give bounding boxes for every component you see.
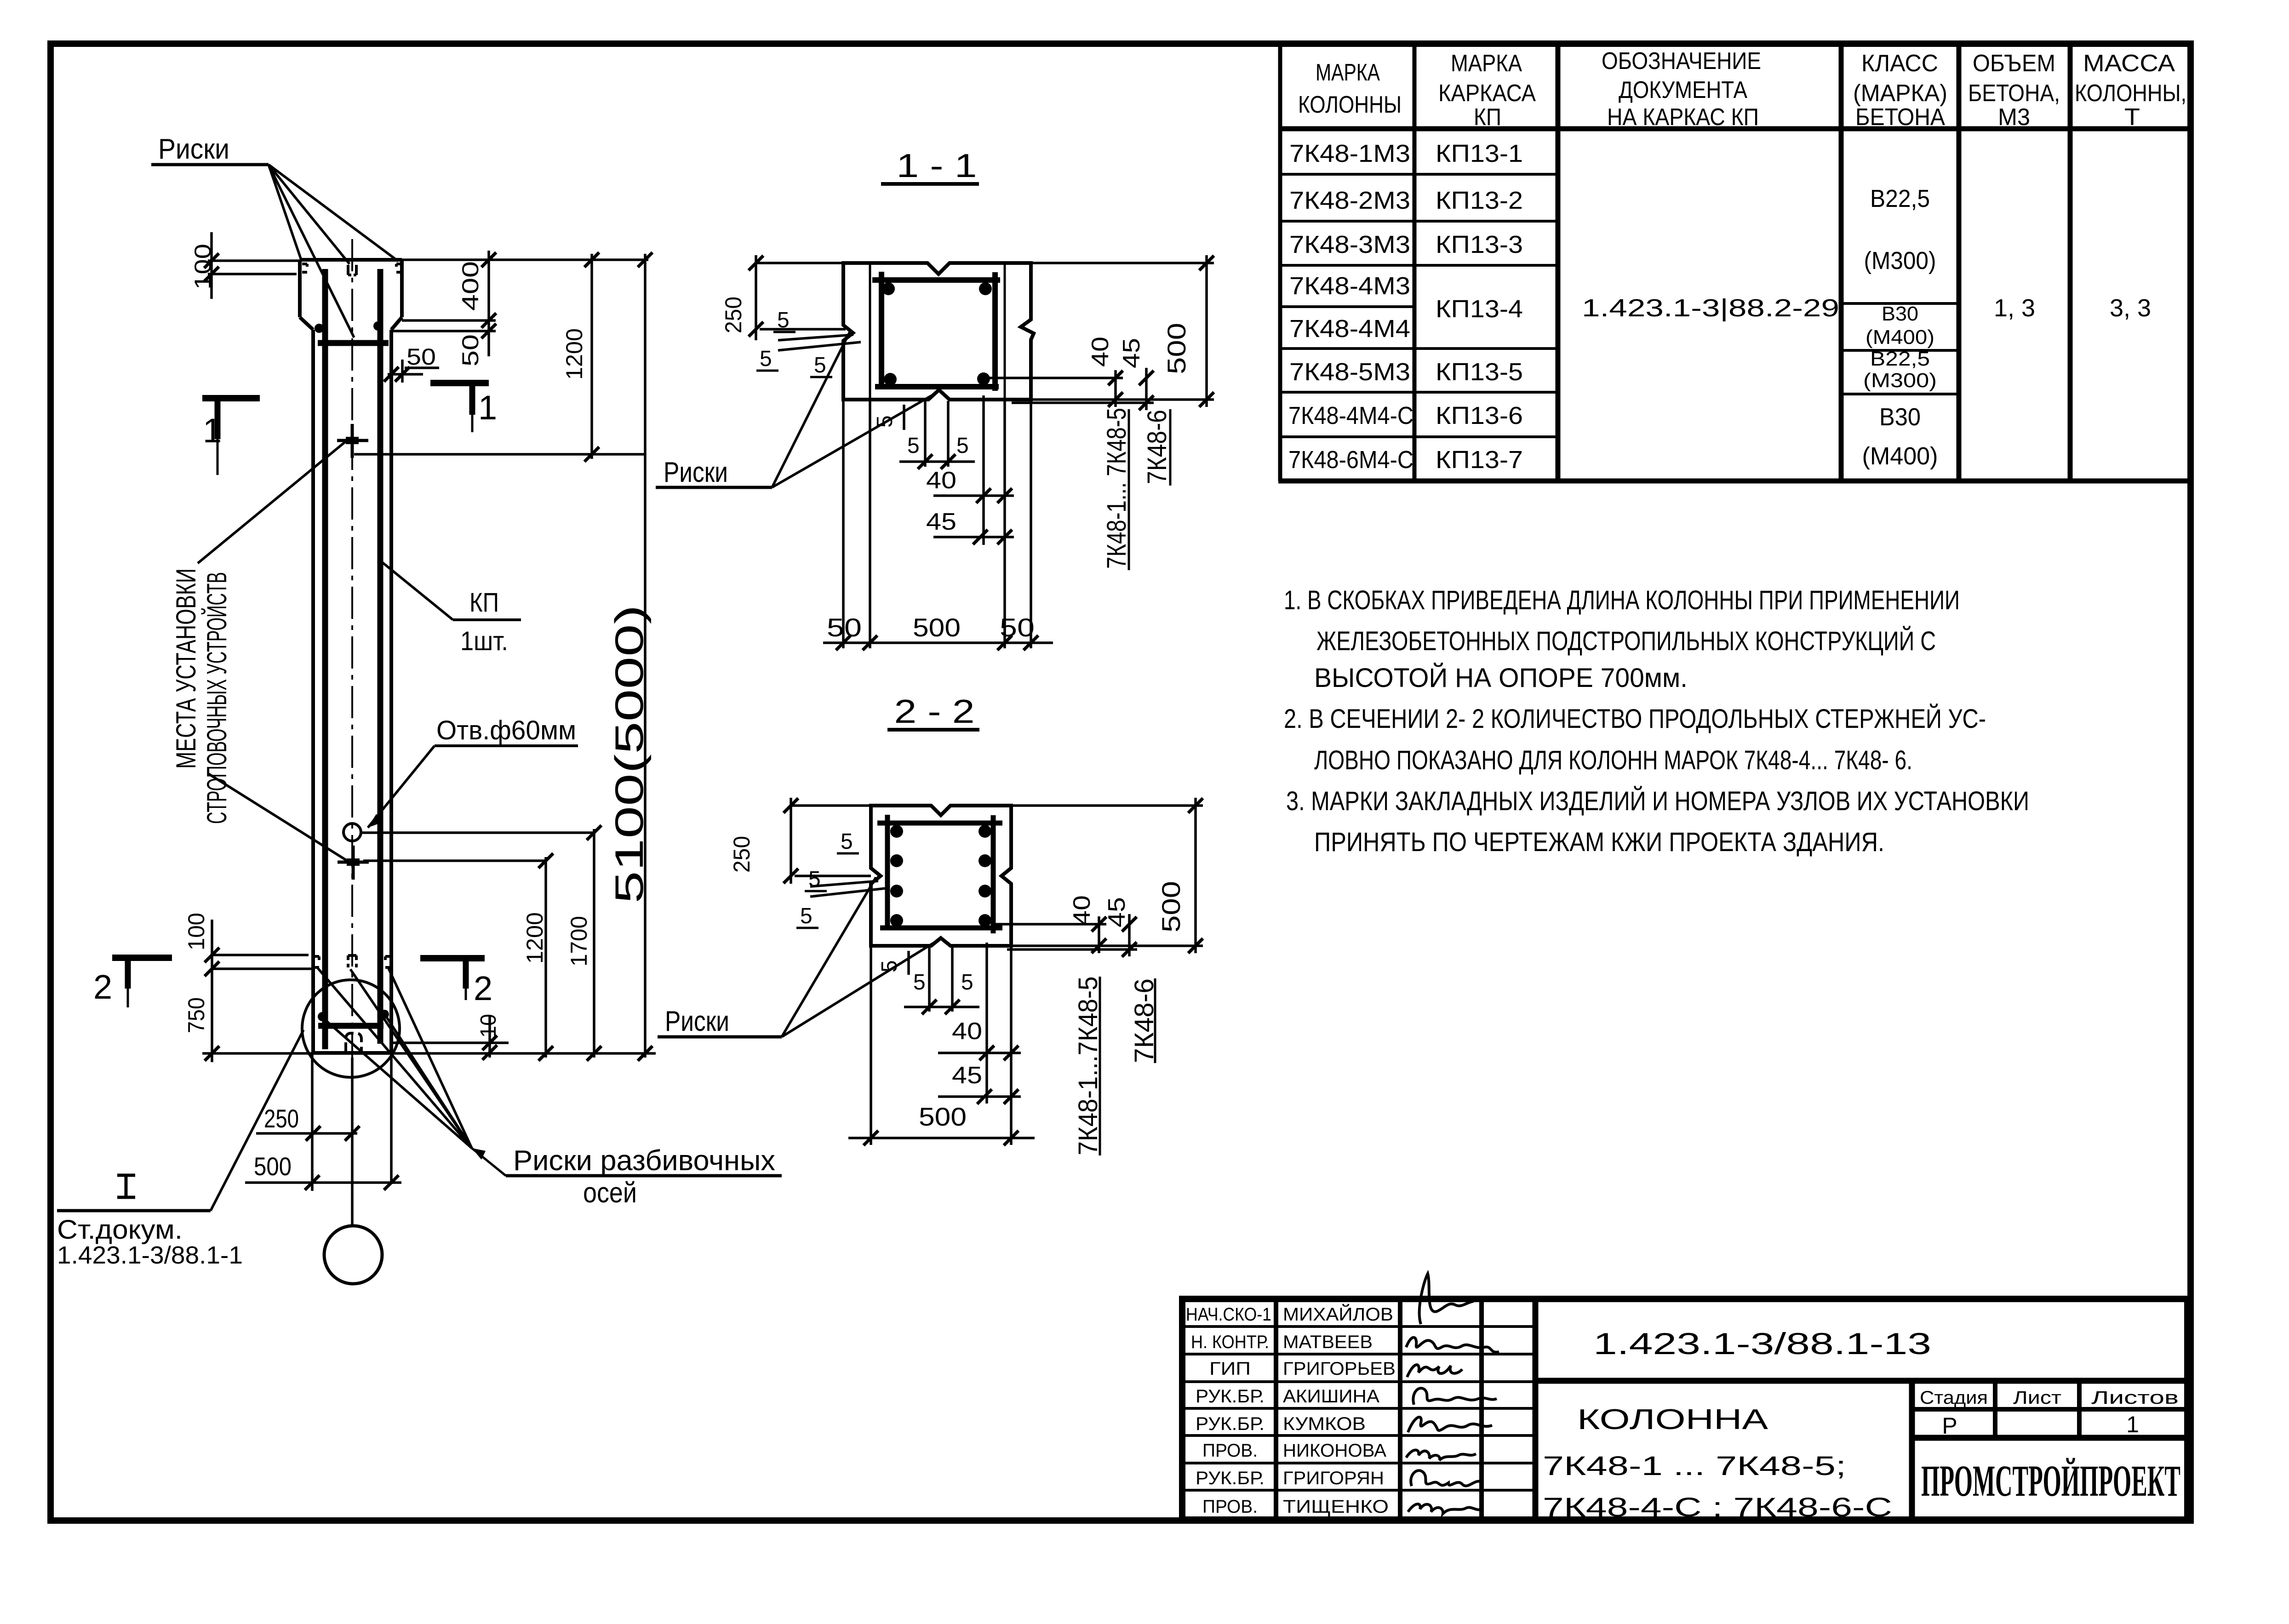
svg-text:500: 500 — [254, 1152, 292, 1181]
bottom 500 dim — [848, 947, 1035, 1145]
svg-text:400: 400 — [458, 261, 483, 311]
svg-text:(МАРКА): (МАРКА) — [1853, 80, 1947, 107]
section mark 1 left — [202, 398, 260, 475]
svg-text:ЛОВНО ПОКАЗАНО ДЛЯ КОЛОНН МАРО: ЛОВНО ПОКАЗАНО ДЛЯ КОЛОНН МАРОК 7К48-4..… — [1314, 745, 1912, 775]
svg-text:1, 3: 1, 3 — [1994, 294, 2035, 322]
svg-text:750: 750 — [183, 997, 209, 1033]
rebar dots — [890, 825, 903, 838]
svg-text:40: 40 — [926, 467, 956, 494]
svg-text:1 - 1: 1 - 1 — [897, 148, 977, 184]
svg-text:БЕТОНА: БЕТОНА — [1855, 104, 1945, 131]
svg-text:КОЛОННЫ: КОЛОННЫ — [1298, 91, 1402, 118]
svg-text:40: 40 — [1069, 895, 1095, 926]
top embed dashed marks — [302, 264, 401, 275]
svg-text:(М400): (М400) — [1866, 326, 1934, 349]
svg-text:КП13-5: КП13-5 — [1436, 358, 1523, 386]
signatures — [1406, 1274, 1499, 1514]
svg-text:Риски: Риски — [158, 133, 229, 165]
svg-text:7К48-6: 7К48-6 — [1142, 410, 1172, 484]
svg-text:5: 5 — [841, 829, 853, 854]
outer contour with notches — [843, 263, 1034, 400]
bottom anchor dots — [318, 1012, 327, 1021]
svg-text:Риски: Риски — [665, 1006, 729, 1037]
svg-text:7К48-1... 7К48-5: 7К48-1... 7К48-5 — [1102, 408, 1132, 569]
svg-text:ГРИГОРЬЕВ: ГРИГОРЬЕВ — [1283, 1359, 1396, 1379]
svg-text:2: 2 — [93, 968, 112, 1006]
section mark 2 left — [93, 958, 172, 1007]
svg-text:1: 1 — [203, 412, 222, 450]
svg-text:7К48-4М4-С: 7К48-4М4-С — [1288, 402, 1413, 429]
svg-text:10: 10 — [476, 1014, 501, 1038]
svg-text:7К48-6М4-С: 7К48-6М4-С — [1288, 446, 1413, 474]
svg-text:2 - 2: 2 - 2 — [894, 693, 975, 730]
svg-text:7К48-1...7К48-5: 7К48-1...7К48-5 — [1073, 977, 1103, 1155]
svg-text:1. В СКОБКАХ ПРИВЕДЕНА ДЛИНА К: 1. В СКОБКАХ ПРИВЕДЕНА ДЛИНА КОЛОННЫ ПРИ… — [1284, 585, 1960, 615]
svg-text:ОБЪЕМ: ОБЪЕМ — [1973, 50, 2055, 77]
svg-text:КП13-3: КП13-3 — [1436, 231, 1523, 258]
svg-text:250: 250 — [721, 297, 746, 333]
svg-text:КАРКАСА: КАРКАСА — [1438, 80, 1536, 107]
50 horizontal dim — [388, 373, 423, 376]
svg-text:1200: 1200 — [561, 328, 587, 380]
top anchor bar — [318, 340, 389, 346]
stirrup square — [872, 272, 1000, 391]
5100 dim line — [644, 254, 647, 1058]
svg-text:5: 5 — [877, 960, 902, 972]
svg-text:5: 5 — [760, 347, 772, 371]
svg-text:МИХАЙЛОВ: МИХАЙЛОВ — [1283, 1304, 1393, 1325]
svg-text:В22,5: В22,5 — [1870, 348, 1930, 370]
svg-text:250: 250 — [264, 1104, 299, 1133]
inner face lines — [869, 263, 871, 400]
dimension ticks — [204, 252, 652, 1190]
svg-text:КУМКОВ: КУМКОВ — [1283, 1414, 1366, 1434]
svg-text:5: 5 — [961, 970, 973, 995]
bottom edge extension — [202, 1052, 656, 1055]
top anchor dots — [315, 324, 324, 333]
svg-text:5: 5 — [873, 415, 897, 428]
svg-text:В30: В30 — [1879, 403, 1921, 431]
svg-text:Р: Р — [1942, 1413, 1957, 1439]
rotated dim labels — [183, 244, 652, 1181]
svg-text:7К48-4М3: 7К48-4М3 — [1289, 272, 1410, 300]
section mark 1 right — [430, 383, 497, 432]
svg-text:осей: осей — [583, 1177, 637, 1209]
svg-text:45: 45 — [952, 1062, 982, 1089]
svg-text:1200: 1200 — [522, 912, 548, 964]
svg-text:КП13-2: КП13-2 — [1436, 187, 1523, 214]
svg-text:3. МАРКИ ЗАКЛАДНЫХ ИЗДЕЛИЙ И Н: 3. МАРКИ ЗАКЛАДНЫХ ИЗДЕЛИЙ И НОМЕРА УЗЛО… — [1286, 786, 2029, 816]
svg-text:В22,5: В22,5 — [1870, 185, 1930, 212]
bottom notch 5 dims — [899, 401, 975, 467]
svg-text:5: 5 — [907, 434, 920, 458]
top-right extensions — [402, 258, 648, 261]
svg-text:Т: Т — [2124, 104, 2140, 131]
svg-text:КП13-4: КП13-4 — [1436, 295, 1523, 323]
svg-text:НАЧ.СКО-1: НАЧ.СКО-1 — [1186, 1304, 1271, 1325]
svg-text:Ст.докум.: Ст.докум. — [57, 1215, 183, 1245]
svg-text:ЖЕЛЕЗОБЕТОННЫХ ПОДСТРОПИЛЬНЫХ: ЖЕЛЕЗОБЕТОННЫХ ПОДСТРОПИЛЬНЫХ КОНСТРУКЦИ… — [1316, 626, 1936, 656]
svg-text:3, 3: 3, 3 — [2110, 294, 2151, 322]
svg-text:40: 40 — [1087, 337, 1114, 367]
reinforcement bar right — [378, 269, 383, 1044]
bottom axis circle — [324, 1226, 382, 1284]
svg-text:КОЛОННА: КОЛОННА — [1577, 1404, 1768, 1435]
stirrup square — [877, 815, 1002, 933]
svg-text:500: 500 — [913, 613, 961, 642]
svg-text:НИКОНОВА: НИКОНОВА — [1283, 1441, 1386, 1461]
leader labels of elevation — [57, 133, 782, 1269]
svg-text:45: 45 — [1104, 897, 1130, 927]
svg-text:2: 2 — [474, 969, 492, 1007]
center axis dash-dot line — [351, 239, 353, 1225]
lower strap cross — [338, 846, 369, 880]
svg-text:МАРКА: МАРКА — [1451, 50, 1522, 77]
svg-text:ДОКУМЕНТА: ДОКУМЕНТА — [1619, 77, 1747, 103]
svg-text:ТИЩЕНКО: ТИЩЕНКО — [1283, 1497, 1389, 1517]
svg-text:РУК.БР.: РУК.БР. — [1196, 1414, 1265, 1434]
svg-text:50: 50 — [458, 334, 483, 366]
svg-text:КОЛОННЫ,: КОЛОННЫ, — [2075, 80, 2186, 107]
right side dims — [989, 255, 1214, 410]
svg-text:Н. КОНТР.: Н. КОНТР. — [1191, 1332, 1269, 1352]
svg-text:ПРОВ.: ПРОВ. — [1202, 1441, 1258, 1461]
left 250 dim — [756, 255, 861, 350]
svg-text:Риски: Риски — [664, 457, 728, 488]
svg-text:100: 100 — [190, 244, 216, 290]
svg-text:Листов: Листов — [2091, 1388, 2179, 1408]
svg-text:ВЫСОТОЙ НА ОПОРЕ 700мм.: ВЫСОТОЙ НА ОПОРЕ 700мм. — [1314, 663, 1688, 693]
svg-text:500: 500 — [919, 1102, 967, 1131]
svg-text:ГИП: ГИП — [1209, 1359, 1251, 1379]
svg-text:250: 250 — [729, 836, 755, 873]
svg-text:7К48-3М3: 7К48-3М3 — [1289, 231, 1410, 258]
svg-text:АКИШИНА: АКИШИНА — [1283, 1386, 1379, 1407]
svg-text:РУК.БР.: РУК.БР. — [1196, 1386, 1265, 1407]
reinforcement bar left — [322, 269, 328, 1049]
upper strap cross — [337, 424, 368, 458]
svg-text:МЕСТА УСТАНОВКИ: МЕСТА УСТАНОВКИ — [171, 568, 201, 769]
svg-text:ГРИГОРЯН: ГРИГОРЯН — [1283, 1468, 1384, 1488]
svg-text:Лист: Лист — [2013, 1388, 2061, 1408]
svg-text:НА КАРКАС КП: НА КАРКАС КП — [1607, 104, 1759, 131]
svg-text:7К48-2М3: 7К48-2М3 — [1289, 187, 1410, 214]
svg-text:1700: 1700 — [566, 916, 592, 966]
svg-text:1.423.1-3/88.1-13: 1.423.1-3/88.1-13 — [1593, 1327, 1931, 1361]
svg-text:7К48-1М3: 7К48-1М3 — [1289, 140, 1410, 167]
bottom node detail circle — [302, 980, 400, 1077]
svg-text:(М300): (М300) — [1864, 247, 1936, 274]
svg-text:КП13-6: КП13-6 — [1436, 402, 1523, 429]
section cut marks — [93, 383, 497, 1007]
bottom lifting loop dashed — [346, 1033, 361, 1052]
40/45 bottom dims — [938, 943, 1021, 1104]
section mark 2 right — [420, 958, 492, 1007]
svg-text:5: 5 — [777, 308, 790, 332]
outer contour with notches — [871, 806, 1011, 946]
svg-text:500: 500 — [1156, 881, 1185, 932]
bottom 250/500 dims — [311, 1053, 314, 1191]
bottom-left 100/750 dims — [211, 920, 213, 1062]
svg-text:100: 100 — [183, 913, 209, 950]
svg-text:45: 45 — [926, 509, 956, 535]
svg-text:МАРКА: МАРКА — [1316, 59, 1380, 86]
column shaft outline — [313, 330, 391, 1053]
svg-text:МАССА: МАССА — [2083, 50, 2175, 77]
hole + cross extensions — [361, 831, 594, 834]
40/45 bottom dims — [933, 395, 1014, 545]
left 250 dim — [791, 798, 886, 897]
svg-text:БЕТОНА,: БЕТОНА, — [1968, 80, 2060, 107]
svg-text:ПРОМСТРОЙПРОЕКТ: ПРОМСТРОЙПРОЕКТ — [1921, 1456, 2180, 1505]
bottom embed dashed marks — [314, 955, 390, 967]
svg-text:ОБОЗНАЧЕНИЕ: ОБОЗНАЧЕНИЕ — [1602, 48, 1761, 74]
svg-text:5: 5 — [808, 867, 821, 892]
svg-text:1шт.: 1шт. — [460, 626, 508, 656]
rebar dots — [882, 282, 895, 295]
T view mark — [117, 1175, 135, 1197]
svg-text:КП: КП — [1474, 104, 1501, 131]
bottom notch 5 dims — [904, 947, 979, 1012]
svg-text:(М300): (М300) — [1863, 369, 1937, 392]
svg-text:КП: КП — [469, 588, 499, 618]
top-left 100 dim — [208, 259, 300, 262]
svg-text:7К48-1 ... 7К48-5;: 7К48-1 ... 7К48-5; — [1543, 1451, 1846, 1481]
svg-text:КП13-1: КП13-1 — [1436, 140, 1523, 167]
svg-text:1.423.1-3|88.2-29: 1.423.1-3|88.2-29 — [1582, 294, 1839, 322]
bottom anchor bar — [318, 1023, 383, 1029]
svg-text:7К48-5М3: 7К48-5М3 — [1289, 358, 1410, 386]
svg-text:КП13-7: КП13-7 — [1436, 446, 1523, 474]
svg-text:5100(5000): 5100(5000) — [607, 605, 652, 903]
dimension lines / extension lines of elevation — [202, 232, 656, 1226]
svg-text:5: 5 — [913, 970, 926, 995]
svg-text:МАТВЕЕВ: МАТВЕЕВ — [1283, 1332, 1373, 1352]
svg-text:2. В СЕЧЕНИИ 2- 2 КОЛИЧЕСТВО П: 2. В СЕЧЕНИИ 2- 2 КОЛИЧЕСТВО ПРОДОЛЬНЫХ … — [1284, 704, 1986, 734]
svg-text:Отв.ф60мм: Отв.ф60мм — [436, 715, 576, 745]
svg-text:50: 50 — [827, 613, 862, 642]
upper 1200 dim — [354, 453, 646, 456]
svg-text:1: 1 — [2126, 1412, 2139, 1437]
right side dims — [992, 798, 1203, 956]
svg-text:5: 5 — [814, 353, 826, 377]
svg-text:РУК.БР.: РУК.БР. — [1196, 1468, 1265, 1488]
svg-text:500: 500 — [1162, 323, 1191, 374]
svg-text:50: 50 — [406, 344, 436, 370]
svg-text:Стадия: Стадия — [1920, 1388, 1988, 1408]
svg-text:(М400): (М400) — [1862, 442, 1938, 470]
svg-text:40: 40 — [952, 1018, 982, 1045]
column head outline — [300, 260, 402, 1053]
svg-text:ПРИНЯТЬ ПО ЧЕРТЕЖАМ КЖИ ПРОЕКТ: ПРИНЯТЬ ПО ЧЕРТЕЖАМ КЖИ ПРОЕКТА ЗДАНИЯ. — [1314, 827, 1884, 857]
svg-text:45: 45 — [1118, 338, 1145, 368]
svg-text:50: 50 — [1000, 613, 1035, 642]
svg-text:7К48-4-С ; 7К48-6-С: 7К48-4-С ; 7К48-6-С — [1543, 1492, 1892, 1522]
svg-text:7К48-4М4: 7К48-4М4 — [1289, 315, 1410, 343]
svg-text:1.423.1-3/88.1-1: 1.423.1-3/88.1-1 — [57, 1241, 243, 1269]
svg-text:ПРОВ.: ПРОВ. — [1202, 1497, 1258, 1517]
bottom 50 500 50 dims — [823, 401, 1053, 648]
svg-text:5: 5 — [800, 904, 813, 928]
svg-text:1: 1 — [478, 389, 497, 427]
svg-text:Риски разбивочных: Риски разбивочных — [513, 1145, 775, 1177]
hole circle — [343, 823, 361, 841]
svg-text:В30: В30 — [1882, 303, 1918, 325]
svg-text:М3: М3 — [1998, 104, 2030, 131]
svg-text:5: 5 — [956, 434, 969, 458]
10 dim right bottom — [391, 1041, 509, 1044]
svg-text:КЛАСС: КЛАСС — [1861, 50, 1938, 77]
